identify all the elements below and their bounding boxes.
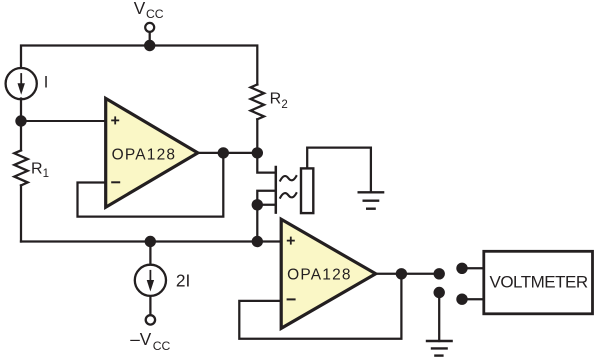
svg-text:–V: –V — [130, 329, 152, 349]
svg-text:CC: CC — [153, 339, 171, 353]
svg-text:CC: CC — [146, 7, 164, 21]
svg-text:V: V — [134, 0, 146, 18]
svg-text:VOLTMETER: VOLTMETER — [490, 273, 588, 292]
svg-text:R: R — [31, 161, 43, 178]
svg-text:OPA128: OPA128 — [287, 266, 352, 283]
svg-text:2: 2 — [281, 99, 287, 111]
svg-text:R: R — [270, 90, 282, 107]
svg-text:1: 1 — [43, 168, 49, 180]
svg-text:I: I — [44, 74, 49, 92]
svg-text:OPA128: OPA128 — [112, 147, 177, 164]
svg-text:2I: 2I — [176, 270, 190, 290]
